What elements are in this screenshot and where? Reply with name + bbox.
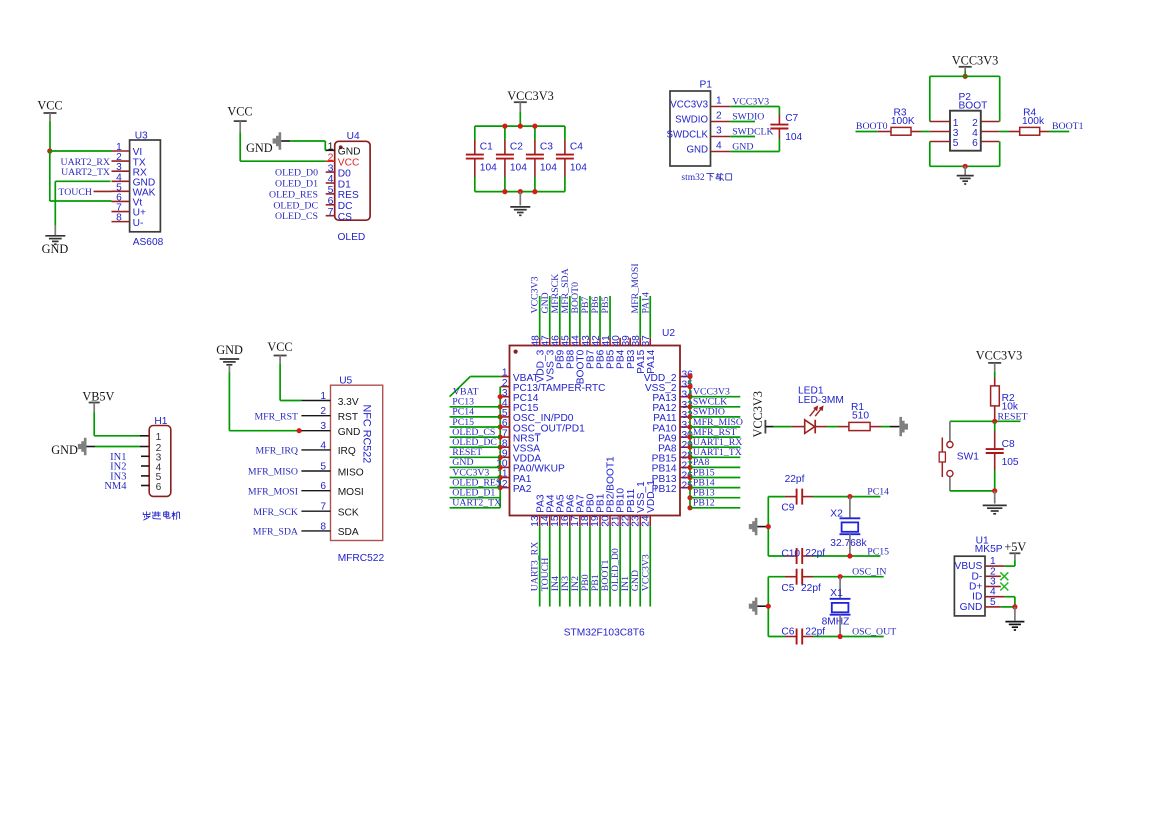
svg-text:100K: 100K: [891, 116, 915, 127]
svg-text:SWDIO: SWDIO: [675, 115, 708, 126]
svg-text:VB5V: VB5V: [82, 389, 114, 403]
svg-text:VCC3V3: VCC3V3: [640, 554, 651, 591]
svg-text:X2: X2: [830, 509, 843, 520]
svg-text:GND: GND: [960, 602, 983, 613]
svg-text:PA14: PA14: [640, 292, 651, 314]
svg-text:VCC3V3: VCC3V3: [952, 53, 998, 67]
svg-text:C5: C5: [781, 583, 794, 594]
svg-text:NM4: NM4: [104, 481, 127, 492]
svg-text:PC14: PC14: [867, 487, 889, 498]
svg-text:OLED: OLED: [338, 232, 366, 243]
svg-text:104: 104: [480, 162, 497, 173]
svg-text:GND: GND: [216, 343, 243, 357]
svg-text:D0: D0: [338, 168, 351, 179]
svg-text:PB5: PB5: [600, 297, 611, 314]
svg-text:C2: C2: [510, 141, 523, 152]
svg-text:22pf: 22pf: [805, 548, 825, 559]
svg-text:OLED_D1: OLED_D1: [275, 179, 318, 190]
svg-text:AS608: AS608: [133, 237, 164, 248]
svg-text:MFR_MISO: MFR_MISO: [248, 467, 298, 478]
svg-text:VCC3V3: VCC3V3: [751, 391, 765, 437]
svg-text:7: 7: [320, 502, 326, 513]
svg-text:OSC_IN: OSC_IN: [852, 566, 886, 577]
svg-text:U3: U3: [135, 131, 148, 142]
svg-text:5: 5: [953, 138, 959, 149]
svg-text:C4: C4: [570, 141, 583, 152]
svg-text:VCC3V3: VCC3V3: [670, 100, 708, 111]
svg-text:U5: U5: [339, 376, 352, 387]
svg-text:U2: U2: [662, 328, 675, 339]
svg-text:MFR_IRQ: MFR_IRQ: [256, 446, 298, 457]
svg-text:OLED_DC: OLED_DC: [273, 200, 318, 211]
svg-text:1: 1: [156, 432, 162, 443]
svg-text:SW1: SW1: [957, 451, 979, 462]
svg-text:NFC RC522: NFC RC522: [361, 405, 373, 464]
svg-text:104: 104: [570, 162, 587, 173]
svg-text:1: 1: [716, 96, 722, 107]
svg-text:PA2: PA2: [513, 484, 532, 495]
svg-text:MFRC522: MFRC522: [338, 553, 385, 564]
svg-text:DC: DC: [338, 201, 353, 212]
svg-text:VCC: VCC: [227, 104, 252, 118]
svg-text:UART2_TX: UART2_TX: [61, 167, 110, 178]
svg-text:5: 5: [320, 462, 326, 473]
svg-text:GND: GND: [246, 141, 273, 155]
svg-text:RES: RES: [338, 190, 359, 201]
svg-text:22pf: 22pf: [805, 626, 825, 637]
svg-text:22pf: 22pf: [785, 474, 805, 485]
svg-text:C9: C9: [781, 502, 794, 513]
svg-text:MISO: MISO: [338, 467, 364, 478]
svg-text:OLED_CS: OLED_CS: [275, 211, 318, 222]
svg-text:MFR_SCK: MFR_SCK: [253, 507, 298, 518]
svg-text:MFR_RST: MFR_RST: [254, 411, 298, 422]
svg-text:22pf: 22pf: [801, 583, 821, 594]
svg-text:D1: D1: [338, 179, 351, 190]
svg-text:8: 8: [320, 521, 326, 532]
svg-text:VCC: VCC: [267, 340, 292, 354]
svg-text:GND: GND: [686, 145, 708, 156]
svg-text:GND: GND: [338, 147, 361, 158]
svg-text:VCC3V3: VCC3V3: [507, 89, 553, 103]
svg-text:STM32F103C8T6: STM32F103C8T6: [564, 627, 645, 638]
svg-text:GND: GND: [42, 242, 69, 256]
svg-text:GND: GND: [338, 427, 361, 438]
svg-text:VCC3V3: VCC3V3: [976, 349, 1022, 363]
svg-text:6: 6: [320, 481, 326, 492]
svg-text:RST: RST: [338, 412, 358, 423]
svg-text:CS: CS: [338, 212, 352, 223]
svg-text:LED-3MM: LED-3MM: [798, 395, 844, 406]
svg-text:PB12: PB12: [652, 484, 677, 495]
svg-text:3: 3: [320, 421, 326, 432]
svg-text:2: 2: [320, 406, 326, 417]
svg-text:8MHZ: 8MHZ: [822, 616, 850, 627]
svg-text:104: 104: [540, 162, 557, 173]
svg-text:U-: U-: [133, 218, 144, 229]
svg-text:stm32: stm32: [681, 173, 704, 183]
svg-text:OLED_RES: OLED_RES: [269, 189, 318, 200]
svg-text:BOOT: BOOT: [959, 100, 988, 111]
svg-text:VCC: VCC: [37, 99, 62, 113]
svg-text:3.3V: 3.3V: [338, 397, 359, 408]
svg-text:SWDCLK: SWDCLK: [667, 130, 709, 141]
svg-text:6: 6: [156, 482, 162, 493]
svg-text:104: 104: [785, 132, 802, 143]
svg-text:OLED_D0: OLED_D0: [275, 168, 318, 179]
svg-text:C7: C7: [785, 113, 798, 124]
svg-text:6: 6: [972, 138, 978, 149]
svg-text:UART2_TX: UART2_TX: [452, 498, 501, 509]
svg-text:X1: X1: [830, 588, 843, 599]
svg-text:4: 4: [320, 440, 326, 451]
svg-text:C8: C8: [1002, 439, 1015, 450]
svg-text:MFR_MOSI: MFR_MOSI: [248, 486, 298, 497]
svg-text:4: 4: [716, 141, 722, 152]
svg-text:2: 2: [716, 111, 722, 122]
svg-text:TOUCH: TOUCH: [58, 187, 92, 198]
svg-text:SCK: SCK: [338, 508, 359, 519]
svg-text:C1: C1: [480, 141, 493, 152]
svg-text:MFR_SDA: MFR_SDA: [253, 527, 298, 538]
svg-text:24: 24: [640, 515, 651, 527]
svg-text:VCC: VCC: [338, 158, 360, 169]
svg-text:MK5P: MK5P: [975, 544, 1003, 555]
svg-text:104: 104: [510, 162, 527, 173]
svg-text:P1: P1: [700, 80, 713, 91]
svg-text:C6: C6: [781, 626, 794, 637]
svg-text:SDA: SDA: [338, 527, 359, 538]
svg-text:PB12: PB12: [693, 498, 715, 509]
svg-text:1: 1: [320, 391, 326, 402]
svg-text:BOOT0: BOOT0: [856, 121, 888, 132]
svg-text:PA14: PA14: [646, 349, 657, 373]
svg-text:H1: H1: [154, 416, 167, 427]
svg-text:105: 105: [1002, 457, 1019, 468]
svg-text:32.768k: 32.768k: [830, 538, 867, 549]
svg-text:IRQ: IRQ: [338, 446, 356, 457]
svg-text:OSC_OUT: OSC_OUT: [852, 626, 896, 637]
svg-text:BOOT1: BOOT1: [1052, 121, 1084, 132]
svg-text:7: 7: [328, 206, 334, 218]
svg-text:510: 510: [852, 411, 869, 422]
svg-text:100k: 100k: [1022, 116, 1045, 127]
svg-text:8: 8: [116, 213, 122, 224]
svg-text:+5V: +5V: [1004, 540, 1026, 554]
svg-text:MOSI: MOSI: [338, 487, 364, 498]
svg-text:GND: GND: [51, 443, 78, 457]
svg-text:U4: U4: [347, 131, 360, 142]
svg-text:3: 3: [716, 126, 722, 137]
svg-text:C3: C3: [540, 141, 553, 152]
svg-text:C10: C10: [781, 548, 800, 559]
svg-text:PC15: PC15: [867, 547, 889, 558]
